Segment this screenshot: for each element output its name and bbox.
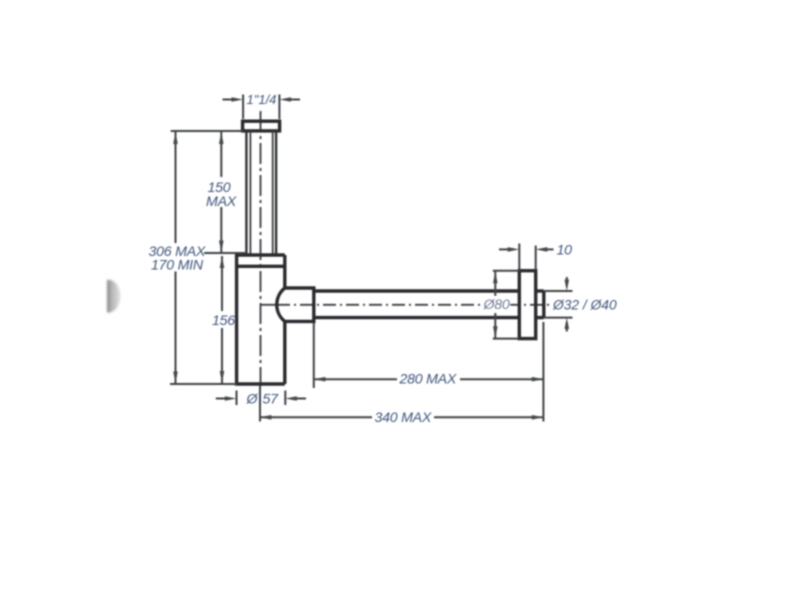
label O80 <box>483 297 511 313</box>
svg-text:57: 57 <box>263 392 280 408</box>
body collar line <box>237 265 285 268</box>
tailpipe <box>246 131 276 255</box>
svg-text:170 MIN: 170 MIN <box>151 258 204 274</box>
svg-text:MAX: MAX <box>206 194 237 210</box>
trap body <box>237 255 285 384</box>
ext line body bottom left <box>170 383 237 385</box>
svg-text:Ø32 / Ø40: Ø32 / Ø40 <box>552 298 617 313</box>
dim O32/O40 ext lines <box>544 291 573 318</box>
outlet stub <box>536 291 544 318</box>
horizontal centerline <box>261 304 553 306</box>
dim 1"1/4 arrows <box>223 97 301 102</box>
carousel half-disc button <box>107 280 120 313</box>
dim O57 <box>216 391 306 406</box>
dim 306 MAX 170 MIN line <box>173 132 178 384</box>
horizontal pipe <box>314 291 520 318</box>
svg-text:156: 156 <box>212 313 235 329</box>
ext line wall bottom <box>542 322 544 422</box>
dim 1"1/4 extension lines <box>243 95 279 120</box>
wall flange <box>519 271 535 339</box>
ext line cone bottom <box>313 323 315 388</box>
svg-text:Ø: Ø <box>246 392 259 408</box>
dim 280 MAX <box>314 377 544 382</box>
outlet cone <box>277 288 314 321</box>
dim 156 line <box>220 256 225 383</box>
label O57 <box>246 392 280 408</box>
dim 340 MAX <box>260 415 544 420</box>
label 150 MAX <box>206 180 237 210</box>
svg-text:340 MAX: 340 MAX <box>375 410 432 426</box>
vertical centerline <box>259 111 262 422</box>
ext line body top left <box>204 252 247 254</box>
dim 150 MAX line <box>219 132 224 253</box>
dim O80 line <box>493 271 498 338</box>
dim 10 arrows <box>499 247 554 252</box>
label 306 MAX 170 MIN <box>149 244 206 274</box>
svg-text:1"1/4: 1"1/4 <box>247 92 277 107</box>
ext line nut bottom left <box>171 130 243 132</box>
nut 1"1/4 <box>243 121 280 131</box>
dim 10 ext lines <box>519 244 535 271</box>
svg-text:Ø80: Ø80 <box>483 297 510 313</box>
dim O32/O40 arrows <box>565 277 570 332</box>
svg-text:280 MAX: 280 MAX <box>399 372 457 388</box>
svg-text:10: 10 <box>557 243 573 259</box>
dim O80 ext lines <box>493 271 520 339</box>
